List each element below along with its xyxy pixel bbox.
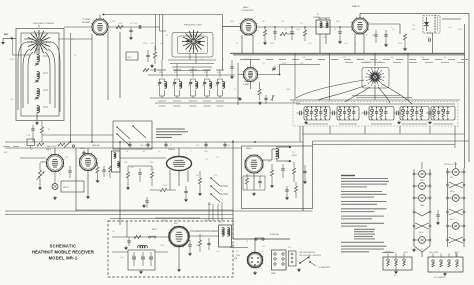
svg-text:6AV6: 6AV6 <box>80 147 86 150</box>
wire bus drop x162 <box>162 15 164 61</box>
svg-text:BLU: BLU <box>404 252 408 254</box>
svg-text:68: 68 <box>334 29 336 31</box>
capacitor C31 <box>103 166 105 169</box>
wire ladder to coils 5 <box>148 74 235 76</box>
label S2 <box>339 123 357 125</box>
muting box <box>61 181 84 192</box>
svg-text:115V: 115V <box>162 220 167 222</box>
detector second box <box>435 16 440 34</box>
ground antenna <box>2 38 4 42</box>
wire ladder to coils 2 <box>170 63 214 65</box>
wire feed from top x127 <box>126 221 128 237</box>
svg-text:2.2M: 2.2M <box>458 29 462 31</box>
ground between strips <box>437 221 439 222</box>
svg-text:100K: 100K <box>230 21 235 23</box>
ground bank 2 <box>398 121 400 122</box>
ground cathode <box>253 192 255 193</box>
wire V5 V6 tops <box>54 148 56 155</box>
wire right edge vertical 1 <box>464 24 466 168</box>
capacitor C20 <box>375 30 377 34</box>
notes text block <box>341 178 388 180</box>
wire V10 top <box>254 239 256 253</box>
thermistor dotted <box>437 17 439 31</box>
svg-text:.05: .05 <box>205 159 208 161</box>
svg-text:.1: .1 <box>190 151 192 153</box>
svg-text:V1 6BJ6: V1 6BJ6 <box>82 19 91 21</box>
svg-text:6BA6 IF: 6BA6 IF <box>352 5 361 8</box>
ground C21 <box>385 43 387 44</box>
antenna coil L3 <box>37 89 39 96</box>
svg-text:FREQUENCY RANGE: FREQUENCY RANGE <box>33 22 55 25</box>
wire drop x155 <box>155 15 157 51</box>
small box above bus <box>27 139 35 146</box>
capacitor C24 <box>265 95 267 98</box>
wire inner box link <box>13 54 31 56</box>
resistor R15 <box>96 167 99 173</box>
capacitor C30 <box>69 166 71 170</box>
wire bank drops <box>299 126 301 142</box>
ground R9 <box>404 47 406 48</box>
ground C12 <box>231 75 233 76</box>
capacitor C7 <box>146 54 149 56</box>
components above V7 <box>129 142 131 145</box>
switch on bus <box>64 142 71 148</box>
svg-text:6BE6: 6BE6 <box>420 180 424 182</box>
oscillator padder box <box>126 52 138 60</box>
svg-text:TO BATTERY: TO BATTERY <box>318 266 331 269</box>
wire switch bank route 1 <box>303 133 465 135</box>
osc coil L11 with trimmer <box>174 79 176 82</box>
svg-text:6AL5 DET: 6AL5 DET <box>47 145 57 148</box>
svg-text:.005: .005 <box>300 63 304 65</box>
svg-text:AVC: AVC <box>4 151 8 154</box>
svg-text:.01: .01 <box>130 23 133 25</box>
svg-text:PRODUCT KIT: PRODUCT KIT <box>444 164 458 166</box>
wire right edge vertical 2 <box>468 13 470 162</box>
svg-text:150: 150 <box>246 175 249 177</box>
svg-text:VIBR: VIBR <box>271 273 276 275</box>
wire V4 below <box>250 82 252 90</box>
svg-text:1M: 1M <box>262 21 265 23</box>
coil shield box inner <box>21 33 59 116</box>
wire V8 cathode down <box>253 173 255 190</box>
svg-text:.047: .047 <box>70 39 74 41</box>
capacitor C33 <box>139 168 141 172</box>
ground R23 <box>199 192 201 193</box>
ground coil box <box>36 121 38 122</box>
trimmer capacitor C1 <box>35 62 38 64</box>
svg-text:470: 470 <box>214 175 217 177</box>
ground strip1 <box>413 248 415 249</box>
svg-text:.001: .001 <box>448 27 452 29</box>
ground C34 <box>185 198 187 199</box>
wire loop around star3 <box>362 68 389 89</box>
ground V6 <box>87 195 89 196</box>
svg-text:2ND IF: 2ND IF <box>140 145 147 147</box>
ground R15 <box>97 179 99 180</box>
wire star2 up right <box>223 26 241 28</box>
switch section S5 <box>431 107 455 121</box>
wire star2 down <box>189 53 191 60</box>
svg-text:.005: .005 <box>130 167 134 169</box>
capacitor C34 <box>184 190 187 192</box>
ground C35 <box>143 204 145 205</box>
wire V3 right <box>368 23 400 25</box>
switch section S4 <box>400 107 429 121</box>
label AVC <box>3 146 10 148</box>
svg-text:1M: 1M <box>30 149 33 151</box>
wire V1 top stub <box>99 15 101 20</box>
svg-text:6AL5: 6AL5 <box>450 218 454 221</box>
wire V5 grid left <box>40 161 46 163</box>
wire B minus bus <box>5 210 313 212</box>
ground R25 <box>271 184 273 185</box>
resistor R11 <box>258 89 261 95</box>
resistor R22 horizontal <box>160 188 167 191</box>
svg-text:220K: 220K <box>282 63 287 65</box>
svg-text:L12: L12 <box>190 72 193 74</box>
svg-text:OSC: OSC <box>127 57 132 59</box>
rotary wafer switch SW1 RF <box>27 30 51 54</box>
osc coil L14 with trimmer <box>217 79 219 82</box>
inline resistor on bus 2 <box>58 143 65 146</box>
svg-text:68: 68 <box>166 35 168 37</box>
wire V3 top to detector box <box>359 13 361 18</box>
capacitor C48 <box>207 242 210 244</box>
wire x92 vertical <box>91 34 93 142</box>
label S1 <box>306 123 328 125</box>
svg-text:6AL5: 6AL5 <box>46 148 52 151</box>
resistor R2 horizontal <box>116 25 123 28</box>
wire B+ bus <box>230 52 465 54</box>
tube V4 6BA6 2nd IF <box>243 67 259 83</box>
notes heading <box>341 175 355 177</box>
switch section S2 <box>337 107 359 121</box>
wire star3 arcs to pushbutton bank <box>318 85 366 100</box>
power supply dashed enclosure <box>108 221 233 277</box>
resistor R31 <box>198 240 201 246</box>
svg-text:.047: .047 <box>216 251 220 253</box>
capacitor C35 <box>146 197 148 200</box>
ground C18 <box>339 40 341 41</box>
wire box to bandswitch <box>42 134 113 136</box>
wire T5 to V9 <box>190 230 219 232</box>
ground V4 left <box>239 97 241 98</box>
resistor R5 <box>264 27 266 30</box>
wire to battery arrow <box>310 262 316 266</box>
svg-text:RF AMP: RF AMP <box>82 21 91 24</box>
wire bus low 2 <box>5 214 233 216</box>
wire feed x329 <box>329 54 331 101</box>
svg-text:12AU6: 12AU6 <box>418 231 424 234</box>
svg-text:L10: L10 <box>159 72 162 74</box>
svg-text:.05: .05 <box>236 251 239 253</box>
wire T3 to V7 <box>120 157 166 159</box>
resistor R25 <box>270 170 273 176</box>
ground filter <box>140 270 142 271</box>
svg-text:.005: .005 <box>160 43 164 45</box>
svg-text:.02: .02 <box>300 23 303 25</box>
capacitor C18 <box>339 27 341 31</box>
label detector <box>442 18 461 20</box>
coupling capacitor bank <box>332 111 334 116</box>
svg-text:L14: L14 <box>217 72 220 74</box>
svg-text:FUSE 4A: FUSE 4A <box>270 233 279 236</box>
antenna coil L1 <box>37 55 39 62</box>
wire V4 left <box>238 74 244 76</box>
svg-text:47: 47 <box>170 145 172 147</box>
switch bank dashed enclosure <box>293 102 458 127</box>
tube V5 6AL5 det <box>46 154 65 173</box>
wire ladder to coils 3 <box>172 66 212 68</box>
tube V1 6BJ6 RF AMP <box>91 18 109 36</box>
svg-text:.02: .02 <box>112 231 115 233</box>
voltage chart strip 1 <box>413 169 415 246</box>
wire star1 arcs left <box>18 42 28 110</box>
wire V7 connections down <box>169 170 171 190</box>
ground plug B <box>444 272 446 273</box>
capacitor C6 inline <box>138 25 140 29</box>
capacitor C47 <box>189 240 191 244</box>
wire ladder to coils 1 <box>168 59 216 61</box>
wire V4 top <box>250 60 252 68</box>
svg-text:.047: .047 <box>142 151 146 153</box>
wire drop x159 <box>159 15 161 32</box>
svg-text:CONVERTER: CONVERTER <box>241 10 254 12</box>
fuse F2 <box>148 236 150 238</box>
resistor R20 <box>150 172 153 178</box>
power plug box B <box>428 257 463 272</box>
wire grid V1 <box>24 38 31 40</box>
volume control R16 <box>38 170 41 178</box>
detector crystal dashed box <box>423 16 435 34</box>
wire strip1 bottom <box>414 246 422 252</box>
wire x108 vertical <box>107 32 109 100</box>
label S4 <box>402 123 427 125</box>
coupling capacitor bank <box>396 111 398 116</box>
resistor R26 <box>292 168 295 174</box>
svg-text:2.2M: 2.2M <box>420 57 424 59</box>
svg-text:2.2M: 2.2M <box>322 37 326 39</box>
svg-text:68: 68 <box>196 245 198 247</box>
wire bus drop x222 <box>222 15 224 71</box>
svg-text:68: 68 <box>444 57 446 59</box>
plug P1 <box>289 251 297 266</box>
svg-text:.01: .01 <box>286 161 289 163</box>
svg-text:.005: .005 <box>142 220 146 222</box>
svg-text:6AQ5: 6AQ5 <box>246 147 252 150</box>
wire x120 vertical lower <box>119 142 121 225</box>
wire detector bottom <box>427 32 433 34</box>
ground R5 <box>264 41 266 42</box>
resistor R9 <box>403 34 406 40</box>
wire V9 down <box>178 245 180 269</box>
svg-text:.1: .1 <box>258 43 260 45</box>
svg-text:47: 47 <box>234 89 236 91</box>
svg-text:68: 68 <box>126 151 128 153</box>
wire bus low 3 <box>110 218 233 220</box>
svg-text:.001: .001 <box>390 57 394 59</box>
antenna coil L2 <box>37 72 39 79</box>
wire switch bank route 3 <box>313 144 456 146</box>
svg-text:6X4: 6X4 <box>450 177 453 179</box>
svg-text:.1: .1 <box>300 249 302 251</box>
ground C45 <box>125 246 127 247</box>
function switch SW3 contacts <box>211 178 220 186</box>
svg-text:.047: .047 <box>200 59 204 61</box>
wire screen bus <box>233 54 465 56</box>
phono jack J2 <box>52 184 58 190</box>
svg-text:MUTE: MUTE <box>63 187 69 189</box>
osc coil L13 with trimmer <box>204 79 206 82</box>
svg-text:2.2M: 2.2M <box>26 135 30 137</box>
switch section S1 <box>304 107 330 121</box>
trimmer row left of star2 <box>143 68 149 71</box>
svg-text:150: 150 <box>412 29 415 31</box>
band switch detail box <box>113 121 152 149</box>
choke L30 <box>138 246 148 248</box>
svg-text:FREQUENCY UNIT: FREQUENCY UNIT <box>184 25 203 27</box>
capacitor C23 <box>273 66 275 68</box>
ground V9 <box>178 268 180 269</box>
svg-text:IF AMP: IF AMP <box>243 83 250 86</box>
chain1 value labels <box>158 100 166 102</box>
tube V9 6X4 rectifier <box>168 226 189 247</box>
svg-text:.02: .02 <box>95 159 98 161</box>
svg-text:HEATHKIT MOBILE RECEIVER: HEATHKIT MOBILE RECEIVER <box>32 250 94 255</box>
svg-text:RECT: RECT <box>152 229 158 231</box>
wire star3 routes right <box>352 95 400 97</box>
svg-text:100K: 100K <box>356 59 361 61</box>
coupling capacitor bank <box>428 111 430 116</box>
capacitor between strips <box>437 210 439 214</box>
wire above dashed box <box>155 217 200 219</box>
svg-text:150: 150 <box>262 246 265 248</box>
wire switch bank route 2 <box>313 140 470 142</box>
ground R16 <box>39 186 41 187</box>
wire V6 down <box>87 171 89 196</box>
ground V10 <box>254 271 256 272</box>
svg-text:100K: 100K <box>163 185 168 187</box>
wire V9 right <box>188 235 220 237</box>
trimmer C25 <box>272 95 274 101</box>
resistor R18 <box>109 166 112 172</box>
ground bank 1 <box>305 121 307 122</box>
IF transformer T3 <box>112 151 121 172</box>
wire filter bus <box>112 251 128 253</box>
wire battery bus <box>233 238 290 240</box>
svg-text:47: 47 <box>262 251 264 253</box>
ground R21 <box>127 186 129 187</box>
electrolytic C46b <box>141 256 145 258</box>
coupling capacitor bank <box>364 111 366 116</box>
wire feed x408 <box>407 54 409 101</box>
wire x70 vertical <box>70 33 72 142</box>
ground R11 <box>259 101 261 102</box>
wire bus above bank <box>290 99 460 101</box>
wire V2 cathode down <box>241 35 243 54</box>
wire T1 down <box>319 34 321 54</box>
ground R3 <box>151 64 153 65</box>
svg-text:.05: .05 <box>392 29 395 31</box>
svg-text:470: 470 <box>281 21 284 23</box>
svg-text:.01: .01 <box>176 220 179 222</box>
resistor R7 <box>303 30 306 36</box>
svg-text:6AV6 AF: 6AV6 AF <box>92 144 101 147</box>
wire x120 vertical <box>119 32 121 98</box>
value labels along screen bus <box>240 59 247 61</box>
svg-text:2.2M: 2.2M <box>150 43 154 45</box>
capacitor C38 <box>282 164 284 168</box>
resistor R30 horizontal <box>134 235 141 238</box>
resistor R6 horizontal <box>280 32 287 35</box>
wire coil row bus <box>150 97 240 99</box>
wire A plus <box>230 247 248 249</box>
rotary wafer switch SW1 OSC <box>182 30 205 53</box>
svg-text:1M: 1M <box>196 175 199 177</box>
wire coil column <box>36 45 38 55</box>
resistor R23 <box>198 178 201 184</box>
svg-text:470: 470 <box>65 157 68 159</box>
wire star1 arcs right <box>50 42 60 112</box>
tube V8 6AQ5 output <box>244 154 264 174</box>
resistor R3 <box>153 52 156 58</box>
fuse F1 <box>255 238 257 240</box>
ground C47 <box>189 252 191 253</box>
ground SW4 <box>298 268 300 269</box>
ground plug A <box>395 270 397 271</box>
vibrator socket box <box>272 250 287 270</box>
wire ladder to coils 4 <box>174 70 210 72</box>
ground C5 <box>130 36 132 37</box>
wire into V9 left <box>112 236 169 238</box>
capacitor above V6 <box>83 150 85 152</box>
tube V3 6BA6 IF AMP <box>351 17 369 35</box>
wire V3 cathode down <box>354 34 356 54</box>
electrolytic C46c <box>149 256 153 258</box>
capacitor C16 <box>291 27 293 31</box>
capacitor det bottom <box>428 38 430 42</box>
svg-text:.001: .001 <box>10 99 14 101</box>
wire star3 up <box>374 54 376 67</box>
svg-text:68: 68 <box>48 129 50 131</box>
wire star3 down <box>374 87 376 101</box>
capacitor C21 <box>384 34 387 36</box>
output transformer T4 <box>276 149 279 159</box>
wire x279 vertical <box>279 65 281 75</box>
trimmer capacitor C2 <box>35 79 38 81</box>
IF transformer T1 <box>316 20 330 34</box>
svg-text:L13: L13 <box>204 72 207 74</box>
wire SW3 drops <box>208 202 210 221</box>
wire cluster bus <box>128 165 152 167</box>
svg-text:6BA6: 6BA6 <box>420 204 424 207</box>
label S3 <box>371 123 392 125</box>
antenna coil L4 <box>37 106 39 113</box>
wire chassis bus mid <box>5 141 303 143</box>
capacitor C45 <box>128 237 130 240</box>
wire V8 plate to T4 <box>263 159 272 161</box>
capacitor C9 below box <box>32 125 34 128</box>
switch section S3 <box>369 107 394 121</box>
capacitor C39 <box>303 170 306 172</box>
capacitor C40 <box>258 180 261 182</box>
wire V7 plate up <box>178 148 180 157</box>
filter capacitor C46 cluster box <box>128 250 155 270</box>
svg-text:RED GRN: RED GRN <box>429 252 438 254</box>
svg-text:ON-OFF SWITCH: ON-OFF SWITCH <box>299 252 316 254</box>
svg-text:.001: .001 <box>308 43 312 45</box>
